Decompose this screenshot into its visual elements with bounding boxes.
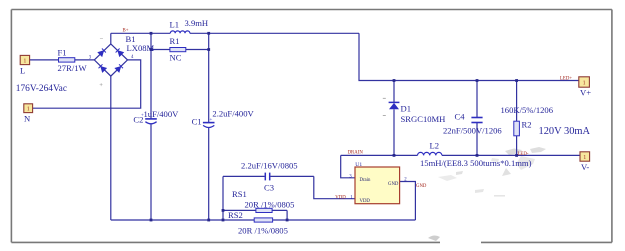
svg-text:3: 3 [349,174,352,179]
svg-text:3.9mH: 3.9mH [185,18,209,28]
svg-text:LED-: LED- [518,152,529,157]
svg-text:LX08M: LX08M [127,43,155,53]
svg-text:LED+: LED+ [560,77,572,82]
svg-text:C4: C4 [455,112,466,122]
svg-text:N: N [24,114,31,124]
svg-text:B+: B+ [123,29,129,34]
svg-text:R1: R1 [170,36,180,46]
svg-text:15mH/(EE8.3 500turns*0.1mm): 15mH/(EE8.3 500turns*0.1mm) [420,158,532,168]
svg-text:V-: V- [581,162,589,172]
svg-text:L2: L2 [430,140,440,150]
svg-text:RS1: RS1 [232,189,247,199]
svg-text:R2: R2 [522,119,532,129]
svg-text:VDD: VDD [335,195,346,200]
svg-text:1: 1 [23,58,26,64]
svg-text:C3: C3 [264,182,274,192]
svg-text:1uF/400V: 1uF/400V [144,109,180,119]
svg-text:L1: L1 [170,19,180,29]
svg-text:F1: F1 [58,48,67,58]
svg-text:D1: D1 [401,103,412,113]
svg-text:U1: U1 [355,162,362,168]
svg-text:GND: GND [388,182,399,187]
svg-text:C1: C1 [192,117,202,127]
svg-text:NC: NC [170,52,182,62]
svg-text:V+: V+ [580,88,591,98]
svg-text:1: 1 [583,155,586,161]
svg-text:VDD: VDD [360,199,371,204]
svg-text:27R/1W: 27R/1W [58,63,88,73]
svg-text:1: 1 [350,195,353,200]
svg-text:GND: GND [416,184,427,189]
svg-text:Drain: Drain [360,178,372,183]
svg-text:1: 1 [27,107,30,113]
svg-text:120V 30mA: 120V 30mA [539,126,591,137]
svg-text:−: − [100,36,104,43]
svg-text:2.2uF/16V/0805: 2.2uF/16V/0805 [241,161,298,171]
svg-text:+: + [99,82,103,89]
svg-text:20R /1%/0805: 20R /1%/0805 [238,226,288,236]
svg-text:1: 1 [583,80,586,86]
svg-text:20R /1%/0805: 20R /1%/0805 [245,200,295,210]
svg-text:22nF/500V/1206: 22nF/500V/1206 [443,125,502,135]
svg-text:2.2uF/400V: 2.2uF/400V [212,109,254,119]
svg-text:C2: C2 [133,115,143,125]
svg-text:RS2: RS2 [228,210,243,220]
svg-text:DRAIN: DRAIN [348,150,364,155]
svg-text:L: L [20,65,25,75]
svg-text:176V-264Vac: 176V-264Vac [16,84,67,94]
svg-text:SRGC10MH: SRGC10MH [401,114,446,124]
svg-text:+: + [210,118,213,123]
svg-text:160K/5%/1206: 160K/5%/1206 [501,105,554,115]
